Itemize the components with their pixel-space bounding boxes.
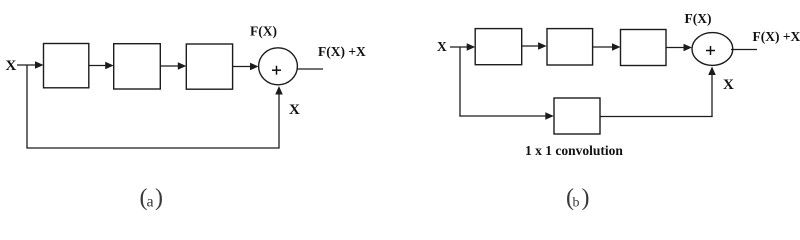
svg-text:1 x 1 convolution: 1 x 1 convolution: [525, 143, 623, 158]
plus sign in adder (diagram b): [706, 46, 715, 55]
label F(X) (diagram a): [250, 23, 277, 38]
box weight layer 2 (diagram a): [114, 44, 161, 89]
caption (a): [140, 185, 164, 211]
box weight layer 3 (diagram a): [186, 44, 232, 89]
wire layer2 to layer3 (diagram b): [593, 43, 621, 51]
svg-text:a: a: [147, 194, 154, 211]
wire X to weight layer 1 (diagram a): [17, 61, 44, 69]
shortcut wire down from input (diagram b): [459, 47, 461, 117]
box weight layer 3 (diagram b): [621, 30, 667, 66]
label X on skip connection (diagram a): [289, 102, 300, 118]
skip connection wire up to adder (diagram a): [275, 86, 283, 148]
shortcut wire up to adder (diagram b): [708, 67, 716, 118]
svg-text:F(X) +X: F(X) +X: [318, 44, 366, 59]
svg-text:X: X: [723, 77, 734, 93]
wire layer1 to layer2 (diagram b): [522, 42, 547, 50]
label F(X)+X (diagram a): [318, 44, 366, 59]
wire 1x1 conv to adder riser (diagram b): [600, 116, 713, 118]
box weight layer 1 (diagram b): [475, 29, 522, 65]
label X on shortcut (diagram b): [723, 77, 734, 93]
svg-text:): ): [582, 185, 590, 211]
label 1 x 1 convolution (diagram b): [525, 143, 623, 158]
box weight layer 1 (diagram a): [44, 44, 89, 88]
wire X to weight layer 1 (diagram b): [450, 43, 475, 51]
adder circle (diagram a): [259, 48, 298, 85]
svg-text:): ): [155, 185, 163, 211]
svg-text:F(X): F(X): [250, 23, 277, 38]
svg-text:F(X): F(X): [685, 11, 712, 26]
skip connection wire down from input (diagram a): [26, 65, 28, 148]
svg-text:X: X: [6, 58, 17, 74]
output wire F(X)+X (diagram a): [297, 68, 324, 70]
box 1x1 convolution (diagram b): [554, 98, 600, 134]
node X input label (diagram b): [437, 39, 447, 54]
caption (b): [566, 185, 590, 211]
svg-text:F(X) +X: F(X) +X: [753, 29, 800, 44]
output wire F(X)+X (diagram b): [731, 49, 757, 51]
label F(X)+X (diagram b): [753, 29, 800, 44]
svg-text:X: X: [437, 39, 447, 54]
wire layer2 to layer3 (diagram a): [160, 62, 186, 70]
svg-text:b: b: [573, 196, 580, 211]
wire layer1 to layer2 (diagram a): [89, 62, 114, 70]
plus sign in adder (diagram a): [272, 66, 281, 75]
svg-text:X: X: [289, 102, 300, 118]
wire layer3 to adder (diagram a): [233, 63, 259, 71]
box weight layer 2 (diagram b): [547, 29, 593, 65]
adder circle (diagram b): [692, 33, 733, 66]
label F(X) (diagram b): [685, 11, 712, 26]
skip connection bottom wire (diagram a): [26, 147, 279, 149]
shortcut wire to 1x1 conv box (diagram b): [459, 112, 553, 120]
wire layer3 to adder (diagram b): [666, 44, 692, 52]
node X input label (diagram a): [6, 58, 17, 74]
